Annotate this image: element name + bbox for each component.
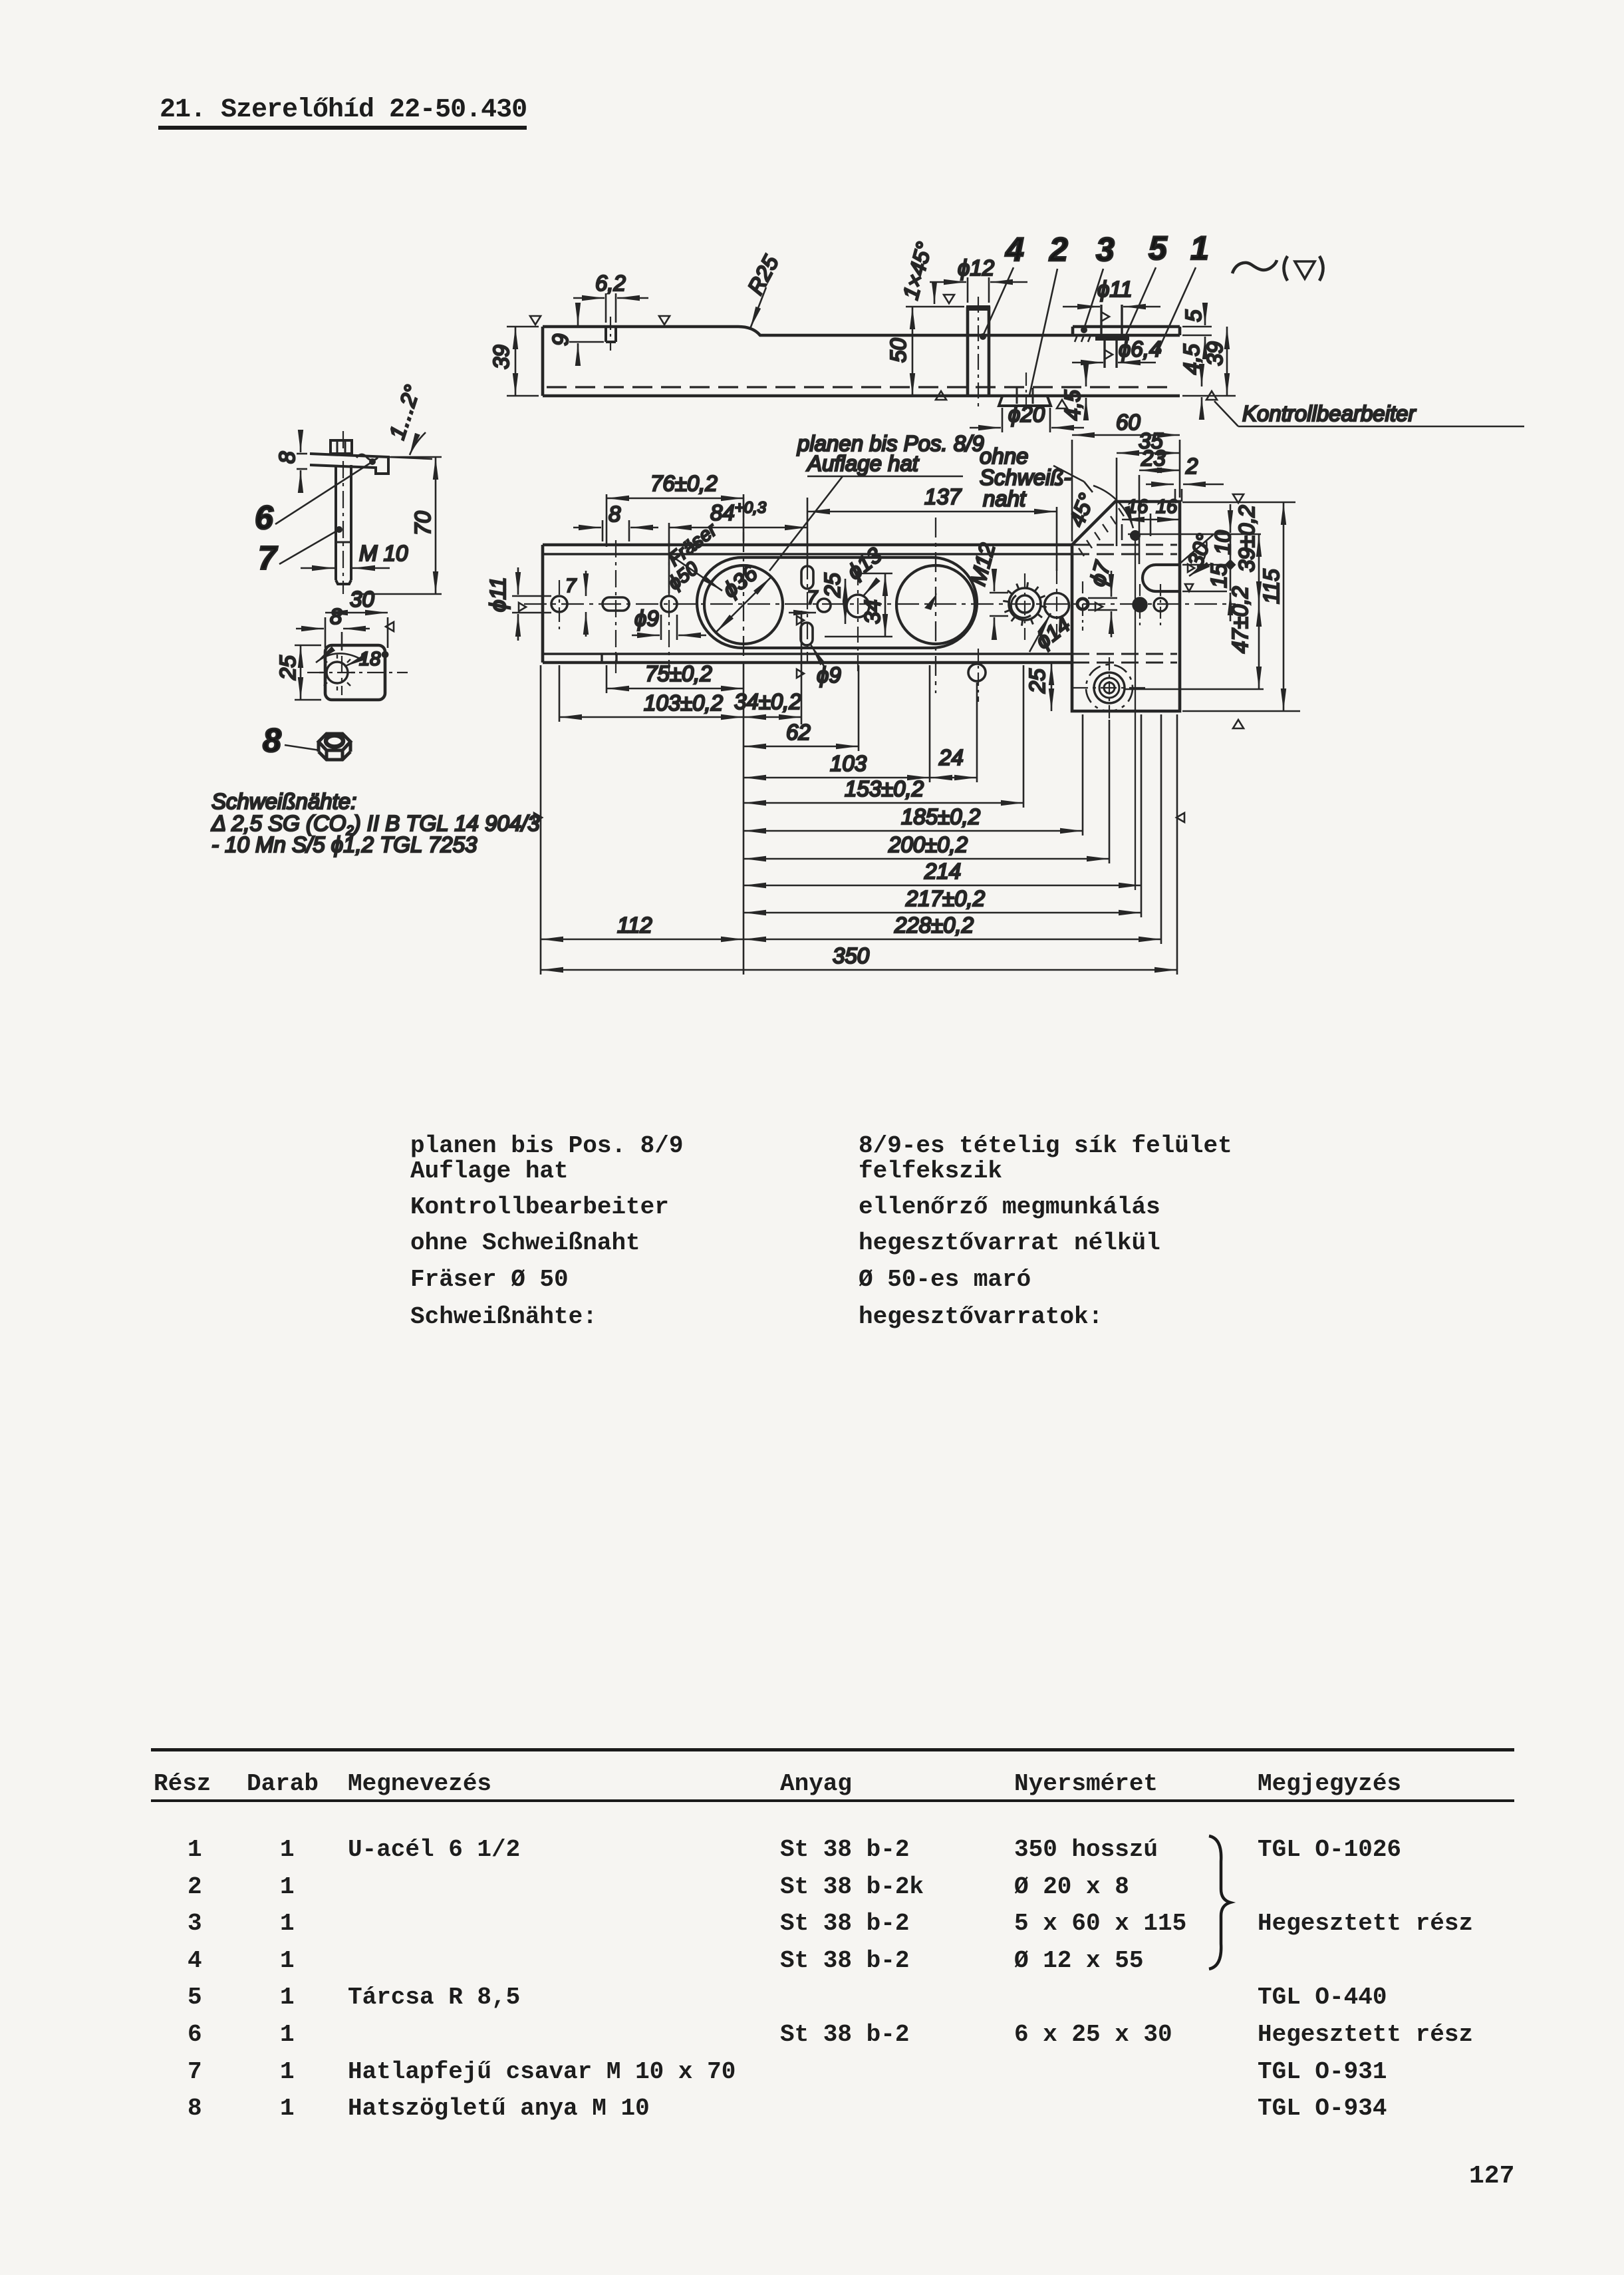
dim 23 — [1139, 475, 1141, 564]
svg-text:15: 15 — [1206, 563, 1231, 588]
plan: flange hole filled — [1133, 598, 1147, 611]
svg-text:ϕ11: ϕ11 — [485, 577, 510, 612]
svg-text:Auflage hat: Auflage hat — [806, 451, 920, 476]
weld triangle mark — [1057, 400, 1067, 408]
side view: disc Pos.2 phi20 under channel — [999, 396, 1051, 406]
plan: bottom flange tab — [601, 654, 603, 663]
plan: hole phi12 at bottom edge — [968, 664, 986, 681]
svg-text:34±0,2: 34±0,2 — [734, 689, 801, 714]
label phi36 with diameter line — [716, 577, 771, 633]
dim 39±0,2 — [1258, 534, 1260, 604]
dim 8 plate thickness — [297, 453, 307, 455]
chain dim 214 — [744, 885, 1141, 887]
svg-text:ϕ14: ϕ14 — [1031, 611, 1075, 653]
svg-text:3: 3 — [1096, 231, 1115, 268]
svg-text:115: 115 — [1259, 569, 1284, 604]
plan: open slot in end plate — [1143, 565, 1178, 591]
svg-text:103±0,2: 103±0,2 — [644, 690, 723, 715]
side view: body outline U-channel Pos.1 — [543, 327, 1180, 335]
page title — [160, 95, 527, 125]
title underline — [158, 126, 527, 130]
plan: horizontal centerline — [524, 603, 1236, 605]
dim 39 left — [507, 326, 539, 328]
svg-text:23: 23 — [1141, 446, 1166, 470]
svg-text:6,2: 6,2 — [595, 271, 626, 295]
mark triangle — [386, 622, 394, 631]
svg-text:103: 103 — [830, 751, 867, 776]
table col: Megjegyzés — [1258, 1831, 1473, 2127]
svg-text:84+0,3: 84+0,3 — [710, 499, 767, 525]
dim phi12 — [967, 277, 969, 303]
svg-text:39±0,2: 39±0,2 — [1234, 505, 1259, 572]
plan: end plate Pos.3 — [1072, 502, 1180, 711]
plan: hole phi11 left — [551, 596, 567, 612]
svg-text:1: 1 — [1190, 229, 1209, 267]
dim 4,5 at disc — [1085, 365, 1087, 386]
svg-text:50: 50 — [886, 338, 910, 363]
svg-text:16: 16 — [1156, 496, 1178, 518]
svg-text:Schweißnähte:: Schweißnähte: — [211, 789, 356, 814]
dim 6,2 slot width — [605, 293, 607, 323]
weld dot — [1130, 530, 1141, 541]
plan: hole phi13 — [847, 595, 869, 617]
table header — [154, 1770, 211, 1797]
svg-text:39: 39 — [489, 345, 513, 369]
chain dim 185±0,2 — [744, 830, 1083, 832]
svg-text:7: 7 — [807, 587, 819, 609]
svg-text:7: 7 — [565, 575, 577, 597]
Kontrollbearbeiter mark + leader — [1206, 391, 1217, 400]
svg-text:25: 25 — [275, 655, 300, 681]
dim 39 right — [1182, 395, 1236, 397]
svg-text:8: 8 — [275, 451, 299, 464]
dim 8 slot — [602, 520, 604, 541]
svg-text:10: 10 — [1210, 530, 1235, 555]
plan: small hole near 7 — [817, 599, 831, 612]
chain dim 200±0,2 — [744, 858, 1109, 860]
plate centerlines — [307, 672, 408, 673]
chain dim 34±0,2 — [744, 716, 801, 718]
svg-text:30: 30 — [350, 587, 374, 611]
chain dim 153±0,2 — [744, 802, 1023, 804]
svg-text:34: 34 — [860, 599, 884, 624]
side view: hidden web line — [547, 386, 1176, 388]
chain dim 228±0,2 / 112 — [744, 939, 1161, 941]
svg-text:2: 2 — [1185, 454, 1198, 478]
page number — [1469, 2162, 1514, 2191]
plan: small obround bottom — [801, 623, 813, 645]
plan: long stadium cutout — [697, 557, 977, 648]
marks — [1233, 494, 1244, 503]
marks on ext line — [797, 616, 804, 625]
bolt head — [331, 440, 352, 454]
svg-text:39: 39 — [1202, 341, 1227, 366]
svg-text:ϕ6,4: ϕ6,4 — [1119, 337, 1161, 361]
svg-text:4,5: 4,5 — [1060, 389, 1085, 420]
svg-text:112: 112 — [617, 913, 652, 937]
plan: circle phi36 — [704, 565, 783, 644]
svg-text:Kontrollbearbeiter: Kontrollbearbeiter — [1242, 401, 1417, 426]
svg-text:75±0,2: 75±0,2 — [645, 661, 712, 686]
plan: circle phi38 — [896, 565, 975, 644]
table col: Rész — [188, 1831, 202, 2127]
svg-text:- 10 Mn S/5 ϕ1,2 TGL 7253: - 10 Mn S/5 ϕ1,2 TGL 7253 — [211, 832, 477, 857]
svg-text:214: 214 — [924, 859, 961, 883]
svg-text:1×45°: 1×45° — [898, 239, 936, 302]
dim 25 obrounds — [845, 579, 847, 624]
30 deg slot angle — [1178, 535, 1213, 565]
plan: hole phi7 — [1077, 599, 1088, 609]
svg-text:200±0,2: 200±0,2 — [888, 832, 968, 857]
svg-text:7: 7 — [258, 539, 278, 577]
dim 16 16 — [1121, 524, 1123, 540]
dim 50 boss height — [906, 306, 964, 308]
svg-text:5: 5 — [1149, 229, 1168, 267]
svg-text:ϕ9: ϕ9 — [817, 663, 841, 687]
bolt centerline — [342, 431, 344, 594]
dim 4,5 right — [1201, 365, 1203, 386]
dim 34 — [862, 573, 892, 575]
svg-text:4: 4 — [1005, 231, 1024, 268]
svg-text:R25: R25 — [743, 251, 783, 298]
extension lines below plan — [540, 665, 542, 975]
dim phi20 — [1002, 408, 1004, 432]
side view: left slot 6,2 wide — [605, 327, 607, 342]
chain dim 103 / 24 — [744, 777, 930, 779]
chain dim 62 — [744, 746, 859, 748]
45deg arc dim — [1093, 486, 1133, 528]
svg-text:24: 24 — [938, 745, 964, 770]
ext lines right — [1128, 533, 1261, 535]
plan: channel outline — [543, 543, 1072, 547]
svg-text:5: 5 — [1181, 309, 1206, 322]
svg-text:76±0,2: 76±0,2 — [650, 471, 718, 496]
svg-text:47±0,2: 47±0,2 — [1228, 586, 1252, 653]
table col: Megnevezés — [348, 1831, 736, 2127]
side view: top plate Pos.3 edge — [1073, 325, 1180, 329]
svg-text:naht: naht — [983, 486, 1027, 511]
bolt shank Pos.7 — [335, 465, 337, 580]
plan: hole phi9 — [661, 596, 677, 612]
svg-text:ϕ20: ϕ20 — [1008, 402, 1045, 426]
svg-text:25: 25 — [1025, 669, 1049, 694]
right cluster: dim 60 — [1071, 440, 1073, 541]
dim phi11 plate — [1063, 306, 1100, 308]
dim 30 — [325, 617, 327, 648]
weld marks on ext lines — [534, 813, 542, 822]
svg-text:25: 25 — [820, 573, 845, 598]
svg-text:4,5: 4,5 — [1179, 343, 1204, 375]
svg-text:ϕ9: ϕ9 — [634, 606, 659, 631]
chain dim 103±0,2 — [559, 716, 744, 718]
svg-text:18°: 18° — [359, 649, 388, 670]
svg-text:M 10: M 10 — [359, 541, 408, 565]
brace for rows 1-4 — [1204, 1833, 1244, 1972]
table col: Nyersméret — [1014, 1831, 1186, 2053]
dim 2 — [1174, 489, 1176, 502]
svg-text:2: 2 — [1049, 231, 1068, 268]
svg-text:350: 350 — [833, 943, 870, 968]
dim 84+0,3 — [668, 523, 670, 593]
dim 137 — [1056, 507, 1058, 571]
chain dim 350 — [541, 969, 1177, 971]
side view: hole phi6,4 below — [1103, 341, 1105, 368]
dim 8 — [341, 632, 343, 651]
dim phi6,4 — [1072, 362, 1103, 364]
svg-text:228±0,2: 228±0,2 — [894, 913, 974, 937]
dim 25 end plate lower — [1051, 663, 1053, 711]
weld symbol circle — [327, 662, 348, 683]
svg-text:ϕ11: ϕ11 — [1097, 277, 1133, 301]
svg-text:62: 62 — [786, 720, 811, 744]
clamp plate Pos.6 — [310, 454, 388, 474]
dim 25 — [295, 645, 321, 647]
plan: flange hole open — [1154, 598, 1167, 611]
side view: disc Pos.5 under plate (filled) — [1095, 335, 1129, 341]
plan: counterbore feature — [1104, 682, 1115, 693]
table col: Darab — [280, 1831, 295, 2127]
chain dim 75±0,2 — [607, 688, 744, 690]
dim 47±0,2 — [1258, 604, 1260, 689]
dim 70 bolt length — [391, 456, 442, 458]
svg-text:8: 8 — [330, 604, 342, 629]
svg-text:153±0,2: 153±0,2 — [845, 776, 924, 801]
svg-text:70: 70 — [410, 511, 435, 535]
note ohne Schweissnaht — [1053, 466, 1084, 482]
dim 9 slot depth — [569, 341, 604, 343]
svg-text:1…2°: 1…2° — [384, 382, 425, 442]
svg-text:6: 6 — [255, 499, 274, 536]
svg-text:16: 16 — [1127, 496, 1149, 518]
dim 35 — [1116, 458, 1118, 546]
square plate outline — [325, 645, 385, 700]
table col: Anyag — [780, 1831, 924, 2053]
svg-text:ϕ12: ϕ12 — [958, 255, 994, 280]
plan: small obround top — [801, 566, 813, 589]
surface finish symbol ~ (triangle) — [1232, 256, 1323, 281]
svg-text:185±0,2: 185±0,2 — [901, 804, 980, 829]
plan: hole phi14 — [1045, 593, 1069, 618]
chain dim 217±0,2 — [744, 912, 1141, 914]
svg-text:9: 9 — [548, 334, 573, 346]
dim 10 / 15 — [1230, 504, 1232, 533]
plan: hidden channel lines under end plate — [1072, 544, 1177, 546]
dim 76±0,2 — [606, 494, 608, 547]
translation block — [410, 1132, 683, 1159]
dim 115 — [1283, 502, 1285, 711]
dim 5 plate thickness — [1182, 326, 1212, 328]
svg-text:137: 137 — [924, 484, 962, 509]
svg-text:60: 60 — [1116, 410, 1141, 434]
svg-text:ϕ13: ϕ13 — [843, 542, 887, 584]
plan: vertical centerlines — [559, 580, 560, 629]
plan: threaded hole M12 — [1016, 595, 1033, 613]
plan: slot 8x... left — [603, 597, 629, 611]
side view: boss Pos.4 phi12 — [966, 307, 970, 396]
svg-text:217±0,2: 217±0,2 — [905, 886, 985, 911]
svg-text:8: 8 — [263, 722, 281, 759]
surface marks side view — [530, 316, 541, 325]
weld hatch on chamfer — [1079, 508, 1124, 556]
svg-text:8: 8 — [609, 502, 621, 526]
parts table rules — [151, 1748, 1514, 1751]
side view: hole phi11 through plate — [1100, 305, 1102, 341]
